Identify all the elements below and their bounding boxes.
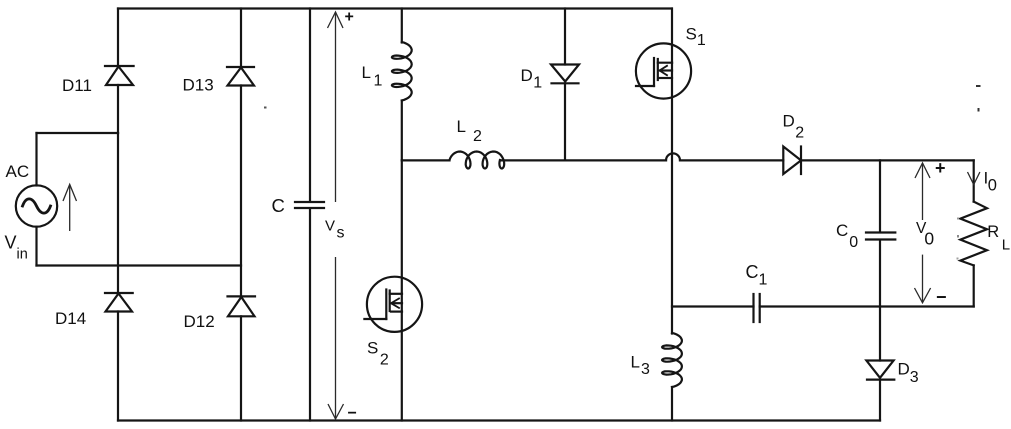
svg-text:D11: D11 xyxy=(62,76,92,95)
Vs arrowhead top xyxy=(328,12,344,28)
capacitor C xyxy=(295,202,324,421)
wire RL bottom xyxy=(973,265,975,306)
transistor S2 xyxy=(364,277,422,332)
wire S1 to L3 (crosses mid rail under hop) xyxy=(671,63,673,334)
Vs dimension line upper xyxy=(335,12,337,202)
wire C1 rail xyxy=(672,305,754,307)
wire mid rail to right corner xyxy=(801,159,974,161)
svg-text:L1: L1 xyxy=(362,63,383,89)
Vs dimension line lower xyxy=(335,257,337,419)
diode D12 xyxy=(228,296,256,420)
svg-text:C0: C0 xyxy=(836,221,858,251)
svg-text:RL: RL xyxy=(987,223,1010,253)
wire AC source stub top xyxy=(35,133,37,186)
inductor L3 xyxy=(662,333,682,387)
svg-text:+: + xyxy=(935,158,946,178)
inductor L2 xyxy=(450,152,505,169)
wire mid rail right xyxy=(680,159,783,161)
svg-text:C: C xyxy=(272,195,285,216)
svg-text:D13: D13 xyxy=(183,76,214,95)
wire second branch upper (to D13) xyxy=(240,9,242,68)
svg-text:S2: S2 xyxy=(367,339,389,369)
stray mark small dot xyxy=(264,107,267,109)
wire left branch mid xyxy=(117,133,119,293)
transistor S1 xyxy=(636,43,691,98)
V0 dimension line upper xyxy=(922,163,924,220)
wire left branch upper (to D11) xyxy=(117,9,119,67)
stray mark dot xyxy=(978,108,980,112)
wire AC bottom xyxy=(37,264,242,266)
V0 arrowhead bottom xyxy=(915,288,931,303)
capacitor C0 xyxy=(866,233,895,361)
wire L1 to mid xyxy=(401,101,403,161)
svg-text:V0: V0 xyxy=(916,220,934,249)
V0 arrowhead top xyxy=(915,163,930,178)
wire hop over S1 branch xyxy=(666,153,680,160)
wire C1 rail right xyxy=(760,305,974,307)
diode D3 xyxy=(866,361,894,421)
inductor L1 xyxy=(392,42,412,101)
stray specks xyxy=(957,218,959,220)
svg-text:C1: C1 xyxy=(746,262,768,289)
wire RL branch top xyxy=(973,160,975,201)
svg-text:AC: AC xyxy=(6,162,30,181)
wire mid rail left xyxy=(402,159,450,161)
svg-text:+: + xyxy=(345,9,354,26)
svg-text:Vin: Vin xyxy=(5,233,28,263)
diode D14 xyxy=(105,293,133,421)
svg-text:L2: L2 xyxy=(457,117,482,145)
wire L1 branch top xyxy=(401,9,403,43)
stray mark dash xyxy=(976,85,981,87)
wire L3 to bottom rail xyxy=(671,387,673,421)
Vs arrowhead bottom xyxy=(328,404,344,419)
AC sine wave xyxy=(23,199,51,213)
svg-text:S1: S1 xyxy=(686,25,706,49)
svg-text:−: − xyxy=(936,287,947,307)
wire S1 branch top xyxy=(671,9,673,63)
svg-text:I0: I0 xyxy=(984,168,997,194)
capacitor C1 xyxy=(754,294,760,322)
wire AC source stub bottom xyxy=(35,227,37,266)
diode D2 xyxy=(783,147,801,175)
svg-text:Vs: Vs xyxy=(325,218,345,242)
resistor RL xyxy=(960,202,987,266)
wire AC top xyxy=(37,132,119,134)
svg-text:L3: L3 xyxy=(631,353,650,379)
wire D1 branch top xyxy=(564,9,566,65)
wire capacitor C branch upper xyxy=(309,9,311,202)
wire S2 branch xyxy=(401,160,403,420)
wire top rail xyxy=(118,7,672,9)
AC source circle xyxy=(16,185,57,226)
wire mid rail center xyxy=(500,159,666,161)
diode D11 xyxy=(105,66,134,133)
wire bottom rail xyxy=(118,419,880,421)
svg-text:D2: D2 xyxy=(783,112,805,142)
Vin direction arrow xyxy=(69,184,71,231)
svg-text:D14: D14 xyxy=(55,309,86,328)
svg-text:D12: D12 xyxy=(184,312,215,331)
svg-text:D1: D1 xyxy=(521,66,543,92)
I0 arrowhead xyxy=(968,172,980,185)
svg-text:D3: D3 xyxy=(898,359,919,386)
V0 dimension line lower xyxy=(922,255,924,303)
diode D13 xyxy=(227,67,254,296)
diode D1 xyxy=(551,65,579,161)
wire C0 branch top xyxy=(879,160,881,231)
svg-text:−: − xyxy=(348,405,357,422)
